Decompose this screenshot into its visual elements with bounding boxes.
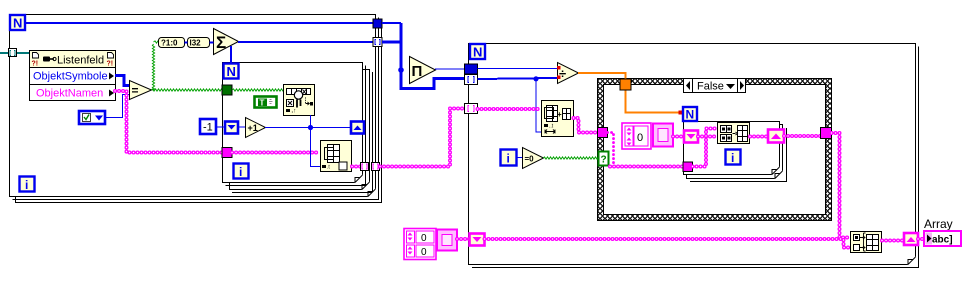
- for-loop 1 dog-ear corner: [367, 188, 376, 197]
- svg-text:N: N: [227, 64, 236, 79]
- loop1 count terminal N: [10, 15, 25, 31]
- loop4 iteration terminal i: [501, 150, 517, 166]
- tunnel: pink solid on loop3 left (lower): [683, 162, 693, 172]
- svg-text:?!: ?!: [32, 61, 39, 68]
- wire SR to +1: [239, 126, 245, 128]
- wire: green dotted inside loop2: [232, 89, 284, 91]
- for-loop 3 dog-ear corner: [771, 166, 780, 175]
- svg-text:.↑: .↑: [292, 109, 297, 115]
- loop2 count terminal N: [224, 64, 239, 80]
- loop2 iteration terminal i: [234, 164, 249, 180]
- wire junction dot: [308, 125, 313, 130]
- wire: loop1 N to right tunnel (blue): [25, 22, 374, 24]
- svg-text:+1: +1: [248, 123, 258, 133]
- replace array subset icon U4: [718, 123, 750, 144]
- tunnel: [] blue on loop4 left: [465, 75, 478, 85]
- svg-text:i: i: [25, 178, 28, 192]
- property node "Listenfeld": [30, 51, 116, 101]
- wire I32 to sigma: [210, 42, 214, 44]
- 2D array constant element frame: [437, 230, 457, 251]
- numeric constant -1: [200, 119, 216, 134]
- svg-text:Listenfeld: Listenfeld: [57, 55, 104, 67]
- wire: reshape out pink beads to case tunnel: [574, 118, 599, 133]
- wire: case pink tunnel branches: [608, 133, 685, 167]
- wire -1 to shift register: [217, 126, 225, 128]
- for-loop 1 shadow border: [13, 18, 379, 200]
- array constant element frame (empty, pink): [653, 124, 673, 147]
- for-loop 3 main frame: [684, 122, 780, 175]
- case selector label "False": [684, 79, 746, 93]
- search/select array icon U1: [284, 85, 315, 116]
- reciprocal node 1/x (pi triangle): [410, 57, 436, 84]
- svg-text:=: =: [132, 84, 139, 98]
- wire: icon2 output pink beads through tunnels: [352, 165, 362, 169]
- wire: long pink rail to build array: [485, 239, 851, 248]
- svg-text:=0: =0: [525, 155, 535, 164]
- junction dot at pi input: [398, 67, 404, 73]
- wire i to =0: [516, 157, 523, 159]
- loop3 count terminal N: [683, 107, 697, 122]
- loop3 iteration terminal i: [726, 150, 741, 166]
- svg-text:False: False: [697, 81, 724, 93]
- increment node +1: [246, 118, 266, 138]
- equal-zero node =0: [523, 148, 544, 169]
- indicator: Array (string array): [924, 231, 961, 246]
- tunnel: pink solid on case right border: [821, 128, 832, 139]
- loop4 count terminal N: [470, 44, 485, 60]
- case selector terminal ?: [599, 152, 609, 166]
- wires: between structures (blue): [382, 23, 465, 89]
- wire: to Array indicator: [918, 237, 924, 241]
- equal? comparison node: [130, 81, 152, 100]
- divide node: [557, 63, 579, 84]
- tunnel: [] blue (loop1 right, sigma out): [373, 38, 382, 47]
- wire: sigma to loop2 N: [230, 46, 232, 64]
- svg-text:Array: Array: [924, 217, 953, 231]
- wire +1 output with branches: [265, 115, 352, 167]
- svg-text:ObjektSymbole: ObjektSymbole: [33, 71, 108, 83]
- boolean checkbox constant: [79, 111, 105, 124]
- tunnel [] on loop1 border (pink): [372, 163, 380, 171]
- coercion dot at loop3 N: [679, 111, 683, 115]
- for-loop 2 shadow border: [226, 66, 366, 186]
- wire: ObjektNamen pink beads down and right: [115, 91, 223, 153]
- build array icon U5: [851, 232, 882, 253]
- svg-text:+: +: [557, 110, 562, 119]
- wire: array const to loop3 tunnel: [673, 135, 684, 139]
- svg-text:0: 0: [637, 132, 643, 144]
- loop1 iteration terminal i: [20, 177, 35, 193]
- tunnel: pink solid on loop2 left border: [222, 148, 232, 158]
- index array icon U2: [321, 141, 352, 172]
- property node header glyphs + title: [32, 53, 114, 68]
- svg-text:T: T: [260, 98, 265, 107]
- junction dot: [533, 76, 538, 81]
- tunnel: refnum array [] on loop1 left border: [9, 49, 17, 57]
- boolean-to-(0,1) node ?1:0: [159, 38, 185, 48]
- for-loop 3 stacked copy frame: [687, 125, 783, 179]
- tunnel: indexing (down arrow) on loop4 left bottom: [470, 234, 485, 246]
- for-loop 1 stacked copy frame: [16, 21, 382, 203]
- svg-text:0: 0: [421, 233, 427, 244]
- tunnel: blue solid on loop4 left: [465, 64, 478, 74]
- svg-text:-1: -1: [203, 122, 213, 134]
- wire: case tunnel down to build array: [832, 133, 851, 238]
- for-loop 2 copy shadow border: [232, 72, 373, 193]
- for-loop 1 main frame: [10, 15, 376, 197]
- wire: pink beads tunnel to index icon: [232, 151, 320, 155]
- for-loop 2 dog-ear corner: [354, 174, 363, 183]
- array constant with 0 (in case): [622, 123, 651, 149]
- 2D array constant (bottom left of loop4): [404, 229, 436, 260]
- reshape array icon U3: [542, 101, 574, 137]
- for-loop 4 main frame: [469, 44, 916, 265]
- wire: icon U4 to loop3 out tunnel: [750, 135, 768, 139]
- svg-text:i: i: [507, 152, 510, 166]
- svg-text:..t: ..t: [549, 124, 554, 130]
- wire: loop3 out to case tunnel: [784, 134, 821, 138]
- tunnel: indexing out (up arrow) on loop4 right: [904, 233, 918, 245]
- boolean constant T: [255, 97, 277, 108]
- for-loop 2 stacked copy frame: [230, 70, 370, 190]
- shift register left (down arrow): [225, 122, 238, 134]
- for-loop 2 main frame: [223, 63, 363, 183]
- to-I32 conversion node: [188, 38, 210, 48]
- svg-text:abc]: abc]: [932, 235, 953, 246]
- tunnel: blue solid (loop1 right, top): [373, 19, 382, 28]
- wire: 2D const into loop4: [457, 237, 470, 241]
- wires inside loop3 (pink): [693, 129, 718, 167]
- wire: boolean to case selector (green dotted): [543, 157, 598, 159]
- svg-text:N: N: [13, 16, 22, 31]
- svg-text:i: i: [239, 165, 242, 179]
- svg-text:Σ: Σ: [216, 33, 226, 52]
- wire: pink beads from loop1 to loop4 tunnel: [380, 109, 465, 167]
- shift register right (up arrow): [351, 122, 364, 134]
- svg-text:i: i: [731, 151, 734, 165]
- svg-text:?1:0: ?1:0: [161, 39, 178, 48]
- tunnel: indexing out (up arrow) on loop3 right: [768, 130, 784, 143]
- wires: tunnels to divide (blue): [478, 69, 558, 133]
- svg-text:I32: I32: [190, 39, 202, 48]
- svg-text:?!: ?!: [107, 61, 114, 68]
- case structure border (checkered): [598, 79, 832, 221]
- tunnel [] on loop2 border (pink): [361, 163, 369, 171]
- property: ObjektNamen: [36, 88, 114, 100]
- svg-text:N: N: [473, 45, 482, 60]
- wire: equal output boolean (green dotted) to tunnel: [151, 41, 224, 91]
- svg-text:N: N: [686, 108, 695, 122]
- for-loop 3 copy shadow: [690, 128, 787, 182]
- tunnel: boolean solid green on loop2 left border: [222, 85, 232, 95]
- wire: build array to out tunnel: [882, 239, 904, 243]
- wire: refnum into loop (teal): [0, 52, 29, 54]
- tunnel: pink solid on case left border: [598, 128, 608, 138]
- for-loop 4 shadow border: [472, 47, 919, 268]
- svg-text:Π: Π: [412, 63, 423, 80]
- svg-text:0: 0: [421, 247, 427, 258]
- svg-text:ObjektNamen: ObjektNamen: [36, 88, 103, 100]
- add-array-elements node (sigma): [214, 29, 239, 55]
- wire: ObjektSymbole to equal node (blue thick): [115, 76, 129, 86]
- for-loop 2 copy dog-ear: [361, 181, 370, 190]
- tunnel: orange on case top border: [620, 79, 631, 90]
- svg-text:?: ?: [601, 155, 607, 166]
- for-loop 4 dog-ear corner: [907, 256, 916, 265]
- wire ?1:0 to I32: [185, 42, 188, 44]
- wire: checkbox to equal node (blue): [106, 95, 129, 118]
- wire: pi out to loop4 tunnel: [435, 68, 465, 70]
- wire: divide out orange to case tunnel and loop3 N: [578, 73, 679, 113]
- tunnel: [] pink on loop4 left: [465, 104, 478, 114]
- for-loop 3 copy dog-ear: [774, 170, 783, 179]
- wire: pink into reshape icon: [478, 107, 542, 111]
- tunnel: indexing (down arrow) on loop3 left: [684, 131, 698, 143]
- wire: sigma output to tunnel (blue): [238, 41, 374, 43]
- property: ObjektSymbole: [33, 71, 114, 83]
